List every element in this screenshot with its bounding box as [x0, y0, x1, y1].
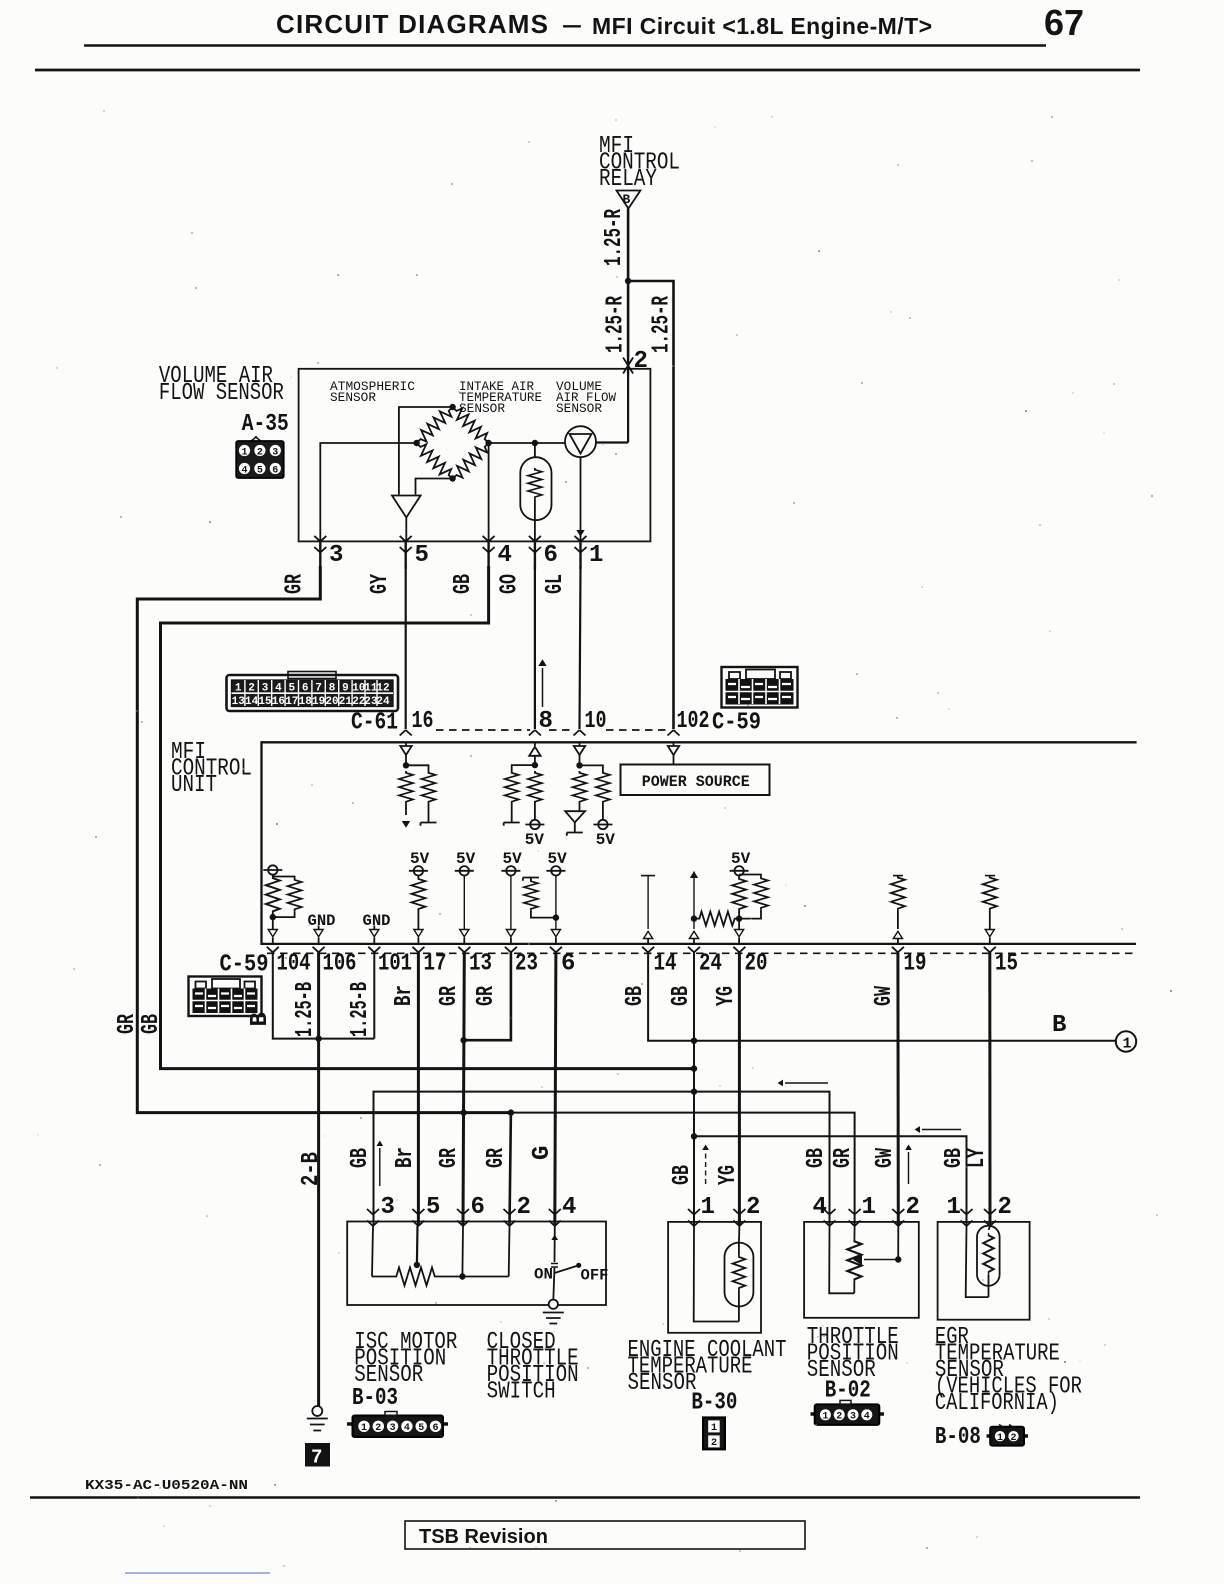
resistor pin10 right to 5V	[580, 765, 616, 849]
wire GL from VAF pin1 to C-61 pin10	[580, 566, 581, 729]
svg-text:20: 20	[745, 951, 768, 978]
wire LY pin15 to EGR pin2	[988, 952, 991, 1226]
VAF sensor box	[299, 369, 651, 542]
C-61 dashed boundary	[436, 729, 666, 731]
svg-text:5: 5	[288, 683, 295, 695]
wire bottom vertex to amp input	[416, 479, 453, 495]
resistor pin8 right to 5V	[525, 771, 545, 849]
TPS box	[804, 1222, 919, 1318]
GND pin 101	[363, 912, 391, 944]
node ISC pin6 tap	[459, 1273, 465, 1279]
wire pin23 link to pin13	[464, 952, 511, 1040]
arrow above EGR pin1 corner	[915, 1126, 961, 1133]
label EGR TEMPERATURE SENSOR (VEHICLES FOR CALIFORNIA)	[935, 1324, 1082, 1451]
svg-text:16: 16	[412, 708, 434, 735]
wire GO from VAF pin6 to C-61 pin8	[534, 566, 536, 729]
ECT pin 2	[733, 1194, 760, 1243]
VAF pin 3	[314, 536, 343, 569]
node GR tap at pin13 wire	[460, 1109, 466, 1115]
svg-text:1: 1	[822, 1412, 828, 1423]
arrow beside GW wire	[905, 1145, 912, 1184]
svg-text:Br: Br	[392, 1147, 419, 1168]
svg-text:8: 8	[329, 683, 336, 695]
svg-text:6: 6	[471, 1194, 485, 1221]
svg-text:GB: GB	[450, 574, 477, 594]
CTP switch arm to OFF	[555, 1263, 582, 1273]
bridge resistor top-right	[448, 403, 493, 448]
svg-text:SWITCH: SWITCH	[487, 1379, 556, 1406]
ECT thermistor capsule	[725, 1243, 754, 1307]
pin 104 internal supply circle	[263, 865, 282, 876]
C-59 pin 104	[267, 947, 311, 978]
svg-text:104: 104	[277, 951, 311, 978]
svg-text:67: 67	[1044, 2, 1084, 43]
svg-text:GR: GR	[436, 986, 463, 1006]
TPS pin 4	[813, 1194, 855, 1293]
TPS wiper arrow	[853, 1254, 898, 1265]
connector C-59 top icon	[722, 667, 798, 708]
svg-text:GB: GB	[803, 1148, 830, 1168]
capsule lead top	[534, 443, 536, 457]
svg-text:1: 1	[997, 1433, 1003, 1444]
pin 15 resistor	[983, 876, 997, 944]
ISC sensor box	[347, 1222, 606, 1306]
ISC potentiometer track	[372, 1268, 509, 1286]
C-61 pin 10	[574, 708, 607, 736]
C-59 pin 24	[688, 947, 722, 978]
svg-text:4: 4	[864, 1412, 870, 1423]
svg-text:17: 17	[285, 696, 298, 708]
C-59 pin 19	[892, 947, 927, 978]
svg-text:1.25-R: 1.25-R	[603, 296, 630, 353]
svg-text:FLOW SENSOR: FLOW SENSOR	[159, 380, 284, 407]
wire sensor ground to ISC pin3 and TPS pin4	[374, 1092, 830, 1226]
svg-text:GB: GB	[138, 1014, 165, 1034]
svg-text:5V: 5V	[731, 850, 751, 868]
svg-text:5V: 5V	[410, 850, 430, 868]
svg-text:4: 4	[562, 1194, 576, 1221]
node TPS wiper	[895, 1256, 901, 1262]
diode triangle pin10	[565, 811, 585, 836]
pin 23 5V line	[501, 850, 522, 944]
svg-text:3: 3	[850, 1412, 856, 1423]
svg-text:YG: YG	[715, 1165, 742, 1185]
label ISC MOTOR POSITION SENSOR	[352, 1329, 457, 1412]
svg-text:OFF: OFF	[581, 1267, 609, 1285]
VAF sensor label	[159, 363, 284, 407]
atmospheric sensor label	[330, 379, 415, 405]
node ISC wiper	[414, 1262, 420, 1268]
svg-text:POWER SOURCE: POWER SOURCE	[642, 773, 750, 791]
svg-text:1: 1	[947, 1194, 961, 1221]
svg-text:GB: GB	[347, 1148, 374, 1168]
wire left vertex to pin 3	[320, 443, 416, 541]
bridge resistor bottom-right	[448, 439, 493, 484]
connector B-30 icon	[699, 1417, 762, 1449]
svg-text:2: 2	[517, 1194, 531, 1221]
air flow meter circle	[565, 426, 596, 457]
scan artifact line	[125, 1572, 270, 1574]
svg-text:24: 24	[376, 696, 390, 708]
wire EGR ground link to EGR pin1	[694, 1136, 967, 1226]
connector B-08 icon	[987, 1425, 1029, 1446]
svg-text:Br: Br	[391, 985, 418, 1006]
node EGR link tap	[691, 1133, 697, 1139]
C-59 pin 6	[550, 947, 576, 978]
svg-text:B-03: B-03	[352, 1385, 398, 1412]
C-59 pin 15	[984, 947, 1018, 978]
node pin10	[576, 762, 582, 768]
node sensor-ground tap	[691, 1088, 697, 1094]
svg-text:2: 2	[634, 348, 648, 375]
relay terminal B triangle	[617, 191, 641, 209]
connector B-02 icon	[811, 1400, 885, 1425]
svg-text:5V: 5V	[596, 831, 616, 849]
wire GR from VAF pin3 down-left	[137, 566, 511, 1113]
wire GY from VAF pin5 to C-61 pin16	[405, 566, 407, 729]
svg-text:6: 6	[272, 466, 278, 477]
ISC pin 3	[367, 1194, 395, 1277]
pin 14 sense line	[641, 876, 655, 944]
svg-text:5V: 5V	[525, 831, 545, 849]
svg-text:GR: GR	[282, 574, 309, 594]
svg-text:SENSOR: SENSOR	[330, 390, 376, 405]
resistor pin16 right	[406, 765, 437, 825]
node pin8	[532, 762, 538, 768]
svg-text:1: 1	[701, 1194, 715, 1221]
pin 10 entry triangle	[574, 742, 585, 765]
volume air flow sensor inner label	[556, 379, 616, 416]
C-61 pin 16	[400, 708, 434, 736]
EGR sensor box	[938, 1222, 1030, 1320]
wire GR branch to ISC pin2	[510, 1113, 511, 1226]
svg-text:1: 1	[241, 448, 247, 459]
continuation circle 1	[1116, 1031, 1136, 1052]
bridge resistor top-left	[412, 403, 457, 448]
pin 19 resistor	[891, 876, 905, 944]
label CLOSED THROTTLE POSITION SWITCH	[487, 1329, 579, 1406]
C-61 pin 8	[529, 708, 553, 736]
wire GR pin13 to ISC pin6	[463, 952, 464, 1226]
amplifier triangle (atmospheric sensor)	[392, 496, 421, 518]
svg-text:1: 1	[862, 1194, 876, 1221]
node ground trunk	[315, 1035, 321, 1041]
svg-text:3: 3	[381, 1194, 395, 1221]
header underline	[84, 44, 1046, 47]
svg-text:C-59: C-59	[220, 952, 269, 979]
svg-text:CALIFORNIA): CALIFORNIA)	[935, 1390, 1059, 1417]
resistor between 24 and 20	[694, 912, 739, 926]
svg-text:5V: 5V	[456, 850, 476, 868]
svg-text:6: 6	[432, 1423, 438, 1434]
svg-text:1.25-B: 1.25-B	[292, 982, 319, 1037]
svg-text:14: 14	[654, 951, 677, 978]
svg-text:8: 8	[539, 708, 553, 735]
svg-text:106: 106	[323, 951, 357, 978]
wire flow meter out to pin 1 with arrow	[576, 457, 584, 541]
node B tap	[691, 1038, 697, 1044]
pin 13 5V line	[455, 850, 476, 944]
svg-text:GND: GND	[363, 912, 391, 930]
svg-text:GR: GR	[436, 1148, 463, 1168]
C-59 pin 106	[313, 947, 357, 978]
svg-text:GR: GR	[114, 1014, 141, 1034]
C-59 dashed boundary	[267, 952, 1137, 954]
svg-text:RELAY: RELAY	[599, 166, 657, 193]
TSB revision box	[405, 1521, 805, 1549]
wire 2-B ground trunk	[317, 952, 320, 1406]
svg-text:ON: ON	[534, 1266, 553, 1284]
VAF pin 4	[483, 536, 512, 569]
svg-text:23: 23	[515, 951, 538, 978]
svg-text:3: 3	[390, 1423, 396, 1434]
bridge resistor bottom-left	[412, 439, 457, 484]
svg-text:A-35: A-35	[242, 411, 289, 438]
pin 8 entry triangle	[529, 742, 540, 765]
label ENGINE COOLANT TEMPERATURE SENSOR	[628, 1337, 787, 1417]
svg-text:6: 6	[302, 683, 309, 695]
VAF pin 1	[575, 536, 604, 569]
EGR thermistor resistor	[983, 1233, 994, 1297]
wire branch to C-59 pin 102	[628, 281, 673, 729]
svg-text:5: 5	[426, 1194, 440, 1221]
C-59 pin 23	[505, 947, 538, 978]
CTP pin 4	[549, 1194, 577, 1226]
CTP earth ground	[543, 1313, 564, 1324]
svg-text:5: 5	[415, 542, 429, 569]
svg-text:B-30: B-30	[691, 1390, 737, 1417]
GND pin 106	[308, 912, 336, 944]
VAF pin 5	[400, 536, 429, 569]
svg-text:5V: 5V	[548, 850, 568, 868]
svg-text:C-59: C-59	[712, 710, 761, 737]
svg-text:2: 2	[257, 448, 263, 459]
svg-text:3: 3	[272, 448, 278, 459]
arrow to internal (pin16)	[402, 821, 410, 828]
CTP ground circle	[549, 1300, 558, 1309]
bridge node top	[449, 404, 455, 410]
MFI control unit box	[262, 742, 1137, 944]
svg-text:SENSOR: SENSOR	[628, 1370, 697, 1397]
dashed arrow beside GB wire	[702, 1145, 709, 1184]
footer rule	[30, 1496, 1140, 1499]
wire pin104 ground link	[273, 952, 375, 1038]
svg-text:B: B	[1052, 1012, 1066, 1039]
svg-text:GB: GB	[669, 1165, 696, 1185]
capsule lead bottom to pin 6	[534, 499, 536, 541]
svg-text:18: 18	[299, 696, 313, 708]
wire amp out to pin 5	[405, 518, 407, 542]
svg-text:101: 101	[378, 951, 412, 978]
CTP switch wire with arrow	[551, 1226, 558, 1262]
svg-text:6: 6	[561, 951, 575, 978]
pin 24 drive line	[689, 871, 698, 944]
svg-text:KX35-AC-U0520A-NN: KX35-AC-U0520A-NN	[85, 1478, 248, 1494]
VAF pin 6	[529, 536, 558, 569]
svg-text:4: 4	[404, 1423, 410, 1434]
svg-text:GB: GB	[668, 986, 695, 1006]
C-59 pin 14	[642, 947, 676, 978]
power source box	[621, 765, 770, 796]
svg-text:GW: GW	[871, 986, 898, 1006]
svg-text:G: G	[529, 1146, 556, 1160]
wire flow meter to pin 2 lead	[596, 374, 628, 443]
svg-text:12: 12	[376, 683, 389, 695]
ISC pin 5	[412, 1194, 440, 1265]
svg-text:5V: 5V	[503, 850, 523, 868]
wire junction to VAF pin 2	[627, 281, 630, 357]
MFI control unit label	[171, 739, 252, 799]
connector C-59 bottom icon	[189, 977, 262, 1017]
ground reference 7 marker	[305, 1443, 330, 1469]
svg-text:4: 4	[275, 683, 282, 695]
svg-text:19: 19	[904, 951, 927, 978]
wire G pin6 to CTP pin4	[555, 952, 556, 1226]
TPS pin 1	[849, 1194, 876, 1226]
svg-text:UNIT: UNIT	[171, 772, 217, 799]
air flow meter triangle	[570, 434, 592, 454]
connector A-35 icon	[236, 437, 284, 479]
ground symbol for 2-B trunk	[307, 1406, 328, 1431]
svg-text:3: 3	[262, 683, 269, 695]
svg-text:2: 2	[1010, 1433, 1016, 1444]
svg-text:1.25-R: 1.25-R	[601, 209, 628, 266]
connector C-61 icon	[227, 672, 399, 712]
ECT pin 1	[688, 1194, 739, 1322]
ISC pin 2	[504, 1194, 531, 1277]
node ISC pin2 branch	[508, 1109, 514, 1115]
svg-text:10: 10	[585, 708, 607, 735]
svg-text:GR: GR	[473, 986, 500, 1006]
bridge node right	[485, 440, 491, 446]
svg-text:5: 5	[418, 1423, 424, 1434]
svg-text:C-61: C-61	[351, 710, 398, 737]
svg-text:1.25-B: 1.25-B	[347, 982, 374, 1037]
capsule resistor	[528, 468, 542, 499]
arrow on ISC pin3 wire	[376, 1141, 383, 1186]
node 13-23 junction	[460, 1037, 466, 1043]
svg-text:GO: GO	[497, 574, 524, 594]
wire GW pin19 to TPS pin2	[896, 952, 899, 1226]
pin 6 5V line	[546, 850, 567, 944]
svg-text:GND: GND	[308, 912, 336, 930]
C-59 pin 20	[733, 947, 767, 978]
svg-text:15: 15	[258, 696, 272, 708]
connector B-03 icon	[347, 1412, 448, 1438]
svg-text:B: B	[623, 192, 631, 207]
svg-text:2: 2	[248, 683, 255, 695]
resistor pin20 right branch	[739, 875, 768, 919]
EGR pin 2	[984, 1194, 1012, 1230]
svg-text:GL: GL	[542, 574, 569, 594]
ECT thermistor resistor	[733, 1243, 746, 1322]
svg-text:21: 21	[339, 696, 353, 708]
intake air temp sensor capsule	[520, 457, 551, 520]
svg-text:4: 4	[813, 1194, 827, 1221]
svg-text:SENSOR: SENSOR	[459, 401, 505, 416]
wire Br pin17 to ISC pin5	[417, 952, 420, 1226]
svg-text:GB: GB	[622, 986, 649, 1006]
svg-text:GY: GY	[367, 574, 394, 594]
C-59 pin 13	[458, 947, 492, 978]
svg-text:2: 2	[711, 1437, 717, 1449]
svg-text:1: 1	[235, 683, 242, 695]
svg-text:24: 24	[699, 951, 722, 978]
svg-text:2: 2	[998, 1194, 1012, 1221]
label THROTTLE POSITION SENSOR	[807, 1324, 899, 1405]
pin 102 entry triangle	[668, 742, 679, 764]
svg-text:2: 2	[836, 1412, 842, 1423]
node pin104	[270, 914, 276, 920]
svg-text:CIRCUIT DIAGRAMS: CIRCUIT DIAGRAMS	[276, 9, 548, 39]
resistor pin10 left to diode	[573, 771, 587, 811]
svg-text:MFI Circuit <1.8L Engine-M/T>: MFI Circuit <1.8L Engine-M/T>	[592, 13, 932, 39]
svg-text:14: 14	[245, 696, 259, 708]
svg-text:1: 1	[1123, 1036, 1132, 1053]
bridge node left	[413, 440, 419, 446]
svg-text:3: 3	[329, 542, 343, 569]
svg-text:TSB Revision: TSB Revision	[419, 1526, 548, 1548]
resistor pin8 left	[504, 765, 535, 826]
TPS potentiometer resistor	[847, 1226, 861, 1293]
svg-text:17: 17	[424, 951, 447, 978]
svg-text:B: B	[247, 1012, 274, 1026]
svg-text:7: 7	[315, 683, 322, 695]
svg-text:4: 4	[498, 542, 512, 569]
connector crossing 2 at VAF box top	[623, 348, 648, 375]
svg-text:LY: LY	[964, 1148, 991, 1168]
node pin16	[403, 762, 409, 768]
svg-text:1: 1	[589, 542, 603, 569]
EGR thermistor capsule	[977, 1226, 1000, 1286]
wire pin101 ground link	[373, 952, 375, 1038]
ECT sensor box	[668, 1222, 761, 1333]
svg-text:1.25-R: 1.25-R	[649, 296, 676, 353]
node GB-left tap	[691, 1065, 697, 1071]
svg-text:2: 2	[906, 1194, 920, 1221]
intake air temperature sensor label	[459, 379, 542, 416]
wire top vertex to amp input	[399, 407, 453, 495]
bridge node bottom	[449, 475, 455, 481]
svg-text:9: 9	[342, 683, 349, 695]
C-59 pin 17	[412, 947, 446, 978]
ISC pin 6	[457, 1194, 485, 1277]
pin 104 exit triangle	[268, 917, 277, 944]
svg-text:2: 2	[746, 1194, 760, 1221]
wire YG pin20 to ECT pin2	[738, 952, 741, 1226]
svg-text:102: 102	[677, 708, 710, 735]
relay label	[599, 133, 680, 193]
svg-text:GR: GR	[830, 1148, 857, 1168]
svg-text:GR: GR	[483, 1148, 510, 1168]
pin 17 5V pull-up resistor	[409, 850, 430, 944]
svg-text:GW: GW	[872, 1148, 899, 1168]
node capsule tap	[532, 440, 538, 446]
svg-text:15: 15	[995, 951, 1018, 978]
pin 16 entry triangle	[400, 742, 411, 765]
resistor pin104 left	[266, 876, 280, 917]
C-59 pin 101	[368, 947, 412, 978]
TPS pin 2 wiper	[892, 1194, 920, 1260]
svg-text:7: 7	[311, 1447, 322, 1469]
svg-text:13: 13	[232, 696, 246, 708]
svg-text:6: 6	[544, 542, 558, 569]
svg-text:16: 16	[272, 696, 285, 708]
wire right vertex to pin 4	[488, 443, 490, 541]
svg-text:5: 5	[257, 466, 263, 477]
pin 20 5V pull-up	[730, 850, 751, 944]
svg-text:19: 19	[312, 696, 325, 708]
